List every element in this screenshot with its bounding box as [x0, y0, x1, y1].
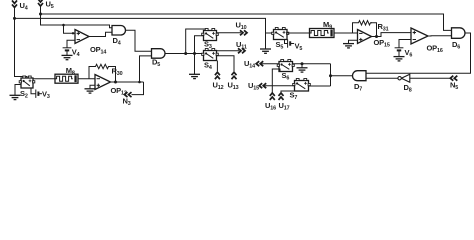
wire U17 to S7 control	[281, 91, 297, 93]
memristor M8	[55, 74, 78, 83]
label U11	[236, 40, 247, 51]
wire S5 to M9	[287, 32, 310, 34]
node U5 rail A junction	[39, 13, 42, 16]
switch S5	[272, 28, 289, 40]
input connector U4	[12, 0, 17, 18]
label S7	[290, 91, 298, 102]
output connector U11	[238, 48, 245, 53]
node OP13 output branch	[138, 81, 141, 84]
op-amp OP13	[95, 75, 111, 90]
battery V3	[36, 90, 42, 98]
label U10	[236, 21, 247, 32]
node rail C branch	[62, 24, 65, 27]
switch S4	[202, 49, 219, 61]
label U16	[265, 101, 276, 112]
label M9	[323, 20, 332, 31]
input connector U17	[279, 93, 284, 100]
wire U16 to S6 control	[272, 69, 280, 93]
input connector U12	[215, 72, 220, 79]
label S5	[276, 40, 284, 51]
wire branch to S3 left pin	[195, 36, 204, 54]
wire M8 to OP13	[78, 78, 95, 80]
ground below V6	[394, 57, 405, 61]
label R30	[112, 67, 123, 78]
label V4	[72, 48, 80, 59]
ground below V4	[62, 55, 73, 59]
label N5	[450, 80, 458, 91]
wire OP14 output to D4	[89, 32, 112, 36]
switch S2	[19, 76, 35, 88]
wire feedback loop OP15	[353, 23, 377, 37]
wire D7 bottom input from D8	[366, 77, 398, 79]
wire U4 vertical to S2	[15, 18, 28, 78]
wire S2 pin to V3	[31, 88, 36, 94]
label U5	[46, 0, 54, 10]
resistor R30	[94, 64, 110, 68]
op-amp OP14	[75, 30, 89, 44]
label V5	[295, 42, 303, 53]
label D8	[404, 83, 412, 94]
wire D7 output to switches	[331, 75, 353, 77]
battery V4	[63, 48, 72, 56]
node U4 rail B junction	[13, 17, 16, 20]
wire branch to S3 top pin	[186, 29, 206, 54]
wire S4 pin to U12	[216, 61, 218, 72]
wire OP14 minus input to V4	[67, 40, 75, 47]
label U14	[244, 59, 255, 70]
label OP15	[374, 38, 390, 49]
label U13	[228, 81, 239, 92]
output connector N3	[125, 92, 132, 97]
wire rail A from U5 to D6	[41, 14, 452, 30]
memristor M9	[310, 29, 335, 38]
wire rail C from U5 to D4	[41, 14, 113, 28]
input connector N5	[450, 76, 457, 81]
input connector U13	[232, 72, 237, 79]
switch S3	[202, 29, 219, 41]
battery V6	[395, 48, 404, 57]
wire S4 output to U11	[217, 50, 240, 52]
input connector U5	[38, 0, 43, 14]
ground at OP13 plus input	[85, 89, 96, 93]
ground at S6 output	[297, 68, 308, 72]
wire S7 output	[309, 85, 331, 87]
wire S5 pin to V5	[285, 40, 288, 44]
wire rail C branch to OP14	[64, 25, 76, 33]
label M8	[66, 66, 75, 77]
label V3	[42, 89, 50, 100]
node S6 output ground tap	[301, 62, 304, 65]
AND gate D7 pointing left	[353, 71, 367, 81]
wire S3 output to U10	[217, 32, 242, 34]
wire S6 output	[293, 63, 331, 65]
node OP14 input	[72, 32, 74, 34]
node D7 output junction	[329, 74, 332, 77]
ground under S4	[189, 74, 200, 78]
wire OP13 output	[111, 81, 144, 83]
wire D4 output to D5	[126, 30, 152, 51]
label U4	[20, 1, 28, 12]
label S4	[204, 60, 212, 71]
resistor R31	[357, 21, 372, 25]
wire OP13 output to N3	[132, 82, 144, 95]
wire feedback loop OP13	[89, 67, 116, 83]
label N3	[123, 96, 131, 107]
inverter D8 pointing left	[398, 74, 410, 82]
node S3 S4 input junction	[193, 52, 196, 55]
wire M9 to OP15	[334, 32, 358, 34]
wire S2 left pin to ground	[15, 85, 21, 96]
label OP13	[111, 86, 127, 97]
wire U15 to S7	[265, 85, 295, 87]
wire D5 output to S4	[165, 53, 204, 55]
label OP14	[90, 45, 106, 56]
label S6	[282, 71, 290, 82]
label D4	[113, 36, 121, 47]
label R31	[378, 22, 389, 33]
wire OP15 plus input to ground	[349, 40, 358, 43]
ground under rail B at S5	[260, 49, 271, 53]
wire ground stem at S6	[301, 64, 303, 68]
node OP15 output feedback	[375, 35, 378, 38]
switch S7	[293, 79, 311, 92]
wire rail B from U4 to S5	[15, 18, 266, 49]
output connector U14	[256, 61, 263, 66]
op-amp OP16	[411, 28, 428, 44]
wire U14 to S6	[262, 63, 280, 65]
wire rail B branch to S5	[266, 32, 274, 34]
wire to ground under S4	[194, 54, 196, 75]
wire OP16 minus input to V6	[399, 40, 411, 48]
ground at OP15 plus input	[343, 44, 354, 48]
output connector U15	[259, 83, 266, 88]
wire OP13 output to D5	[140, 56, 152, 82]
label S2	[20, 89, 28, 100]
label D6	[452, 40, 460, 51]
node D5 output branch S3	[184, 52, 187, 55]
ground below S2	[10, 95, 21, 99]
AND gate D6	[452, 28, 466, 39]
label OP16	[427, 44, 443, 55]
input connector U16	[270, 93, 275, 100]
wire OP15 output to OP16	[372, 33, 412, 37]
label U12	[213, 81, 224, 92]
label S3	[204, 39, 212, 50]
wire OP13 plus input to ground	[90, 85, 95, 89]
node OP13 output feedback	[114, 81, 117, 84]
wire S4 pin2 to U13	[217, 56, 235, 71]
op-amp OP15	[358, 30, 372, 44]
AND gate D5	[152, 49, 166, 59]
label U15	[248, 81, 259, 92]
wire OP16 output to D6	[428, 35, 452, 37]
battery V5	[288, 39, 294, 47]
label U17	[279, 101, 290, 112]
output connector U10	[240, 30, 247, 35]
wire D6 output down right edge to D7	[366, 33, 471, 73]
wire junction vertical S6 S7	[330, 64, 332, 86]
AND gate D4	[112, 26, 126, 36]
label D5	[152, 58, 160, 69]
wire S2 to M8	[33, 78, 55, 80]
wire N5 to D8	[410, 77, 450, 79]
label V6	[405, 48, 413, 59]
switch S6	[277, 60, 294, 72]
label D7	[354, 82, 362, 93]
